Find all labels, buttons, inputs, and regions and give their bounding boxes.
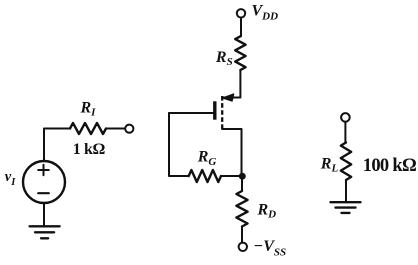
voltage source v1 (23, 161, 65, 203)
resistor RS zigzag (235, 36, 245, 70)
transistor Q1 gate bar (213, 101, 216, 119)
terminal node (open circle) after R_I (125, 125, 133, 133)
svg-text:−VSS: −VSS (254, 238, 287, 258)
wire R_G to node (221, 175, 242, 177)
svg-text:RL: RL (320, 155, 339, 174)
ground under v1 (30, 226, 60, 238)
resistor RD zigzag (236, 191, 247, 227)
wire VDD to R_S (240, 18, 242, 37)
terminal -VSS (open circle) (239, 243, 247, 251)
wire R_L to ground (345, 180, 347, 202)
junction node dot (239, 173, 246, 180)
transistor Q1 source arrow (223, 94, 234, 101)
wire v1 top to R_I (44, 129, 70, 162)
svg-text:RG: RG (197, 148, 217, 168)
svg-text:RD: RD (257, 202, 277, 221)
ground under R_L (331, 202, 361, 213)
resistor R1 zigzag (70, 123, 106, 134)
svg-text:vI: vI (5, 169, 16, 188)
terminal output (open circle) above R_L (341, 113, 350, 122)
wire R_I to output terminal (106, 128, 125, 130)
wire v1 bottom to ground (43, 203, 45, 226)
gate wire to left (169, 112, 213, 114)
resistor RL zigzag (341, 143, 351, 181)
svg-text:VDD: VDD (252, 3, 279, 23)
svg-text:RS: RS (215, 49, 233, 68)
wire gate loop down (169, 113, 189, 176)
plus sign of v1 (38, 165, 49, 176)
wire R_D to -VSS terminal (241, 227, 243, 243)
svg-text:100 kΩ: 100 kΩ (363, 156, 416, 176)
wire terminal to R_L (344, 122, 346, 143)
transistor Q1 dashed channel (221, 96, 223, 129)
svg-text:1 kΩ: 1 kΩ (73, 141, 106, 158)
minus sign of v1 (38, 192, 49, 194)
terminal VDD (open circle) (237, 9, 245, 17)
svg-text:RI: RI (80, 99, 97, 118)
wire R_S to transistor source (222, 70, 240, 98)
transistor Q1 drain lead (222, 129, 241, 176)
resistor RG zigzag (189, 170, 221, 182)
wire node to R_D (241, 176, 243, 191)
